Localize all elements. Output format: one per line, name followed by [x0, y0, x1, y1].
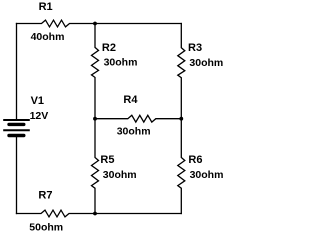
svg-text:R2: R2	[102, 42, 116, 54]
wire left rail upper	[16, 24, 18, 120]
battery V1	[3, 120, 30, 136]
wire top rail with resistor R1	[17, 20, 182, 27]
svg-text:40ohm: 40ohm	[31, 31, 65, 43]
svg-text:R6: R6	[188, 154, 202, 166]
svg-text:30ohm: 30ohm	[189, 57, 223, 69]
node junction bottom	[93, 212, 97, 216]
svg-text:30ohm: 30ohm	[117, 126, 151, 138]
svg-text:R5: R5	[100, 154, 114, 166]
svg-text:R7: R7	[38, 190, 52, 202]
node junction middle-left	[93, 117, 97, 121]
svg-text:R4: R4	[123, 94, 138, 106]
wire left rail lower	[16, 137, 18, 214]
svg-text:50ohm: 50ohm	[29, 221, 63, 233]
wire right rail with resistor R3 and resistor R6	[178, 24, 185, 214]
svg-text:V1: V1	[31, 95, 44, 107]
svg-text:30ohm: 30ohm	[103, 169, 137, 181]
node junction middle-right	[179, 117, 183, 121]
svg-text:12V: 12V	[30, 110, 49, 122]
wire bottom rail with resistor R7	[17, 210, 182, 217]
svg-text:30ohm: 30ohm	[104, 57, 138, 69]
svg-text:R3: R3	[188, 42, 202, 54]
wire middle horizontal with resistor R4	[95, 115, 181, 122]
wire middle rail with resistor R2 and resistor R5	[92, 24, 99, 214]
node junction top	[93, 22, 97, 26]
svg-text:R1: R1	[39, 1, 53, 13]
svg-text:30ohm: 30ohm	[190, 169, 224, 181]
